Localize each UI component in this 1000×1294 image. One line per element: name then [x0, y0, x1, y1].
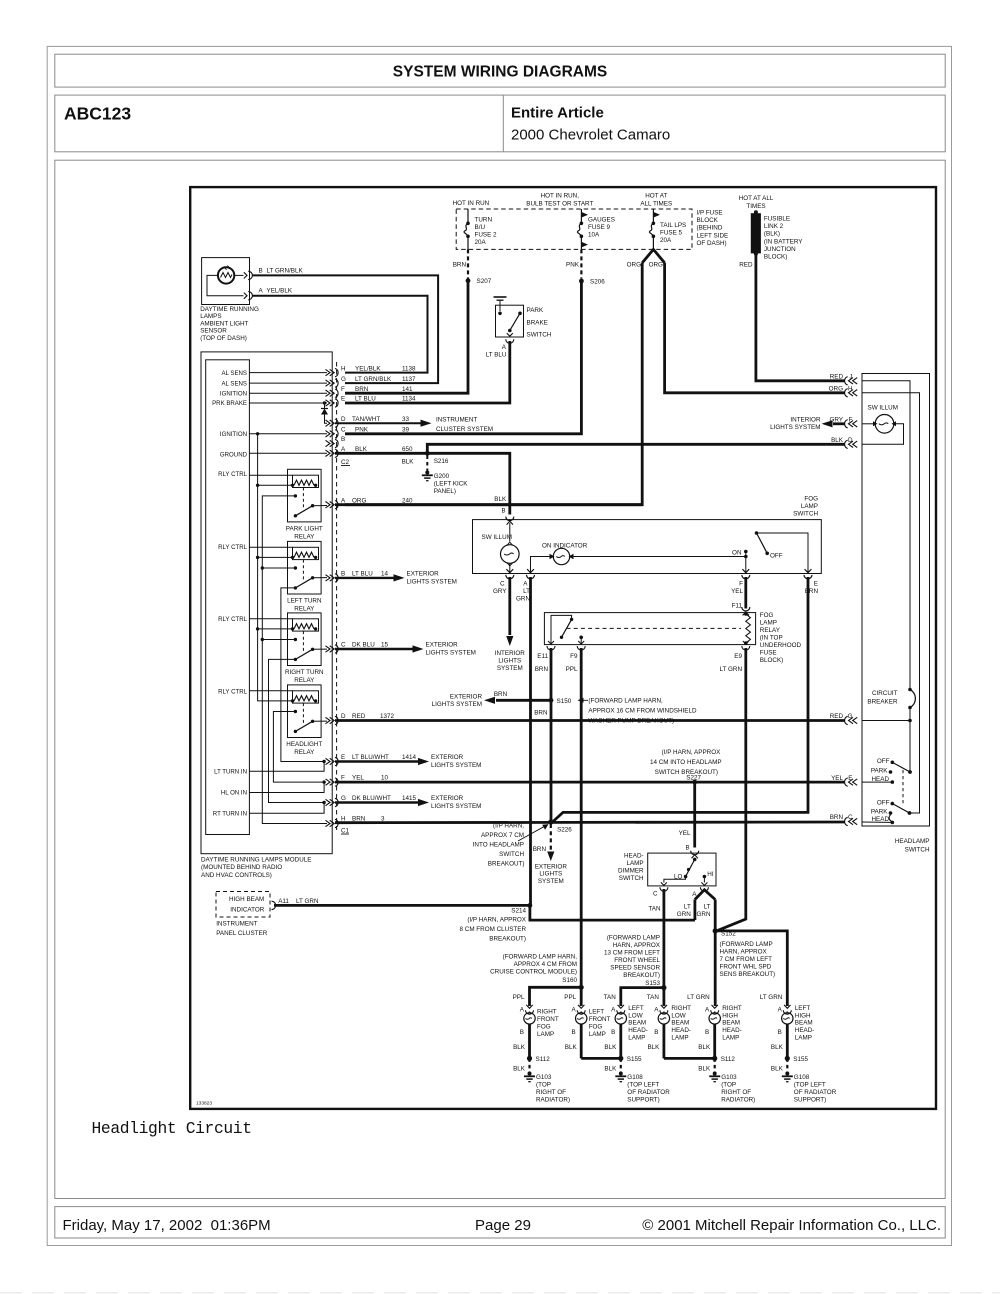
svg-text:S227: S227 [686, 775, 701, 782]
svg-text:(TOP OF DASH): (TOP OF DASH) [200, 335, 247, 342]
wire label F BRN 141 [341, 386, 413, 393]
svg-text:BLK: BLK [494, 496, 507, 503]
splice S155 [785, 1056, 809, 1063]
svg-text:LAMPS: LAMPS [200, 313, 221, 320]
svg-text:HEADLAMP: HEADLAMP [895, 838, 930, 845]
title bar box [55, 54, 945, 87]
svg-text:CRUISE CONTROL MODULE): CRUISE CONTROL MODULE) [490, 969, 577, 976]
svg-text:C2: C2 [341, 459, 350, 466]
headlamp switch mechanical dashed link [902, 770, 904, 804]
svg-text:SWITCH: SWITCH [499, 851, 524, 858]
lamp left high beam headlamp ground wire BLK [771, 1024, 787, 1058]
svg-text:HOT AT: HOT AT [645, 193, 667, 200]
svg-text:S112: S112 [536, 1056, 551, 1063]
wire TAN dimmer C down to S153 [663, 889, 666, 988]
svg-text:SWITCH: SWITCH [793, 511, 818, 518]
svg-text:FOG: FOG [760, 612, 774, 619]
svg-text:APPROX 4 CM FROM: APPROX 4 CM FROM [514, 961, 577, 968]
svg-text:LIGHTS SYSTEM: LIGHTS SYSTEM [407, 578, 457, 585]
label DAYTIME RUNNING LAMPS MODULE (MOUNTED BEHIND RADIO AND HVAC CONTROLS) [201, 857, 311, 879]
dimmer pin C TAN [648, 887, 668, 912]
lamp right front fog [513, 994, 559, 1038]
svg-text:BREAKOUT): BREAKOUT) [488, 861, 525, 868]
svg-text:1137: 1137 [402, 376, 416, 383]
svg-text:YEL: YEL [731, 588, 743, 595]
svg-text:FUSE 9: FUSE 9 [588, 224, 611, 231]
module connector C2 pins [326, 368, 339, 509]
svg-text:HEAD-: HEAD- [624, 853, 644, 860]
wire C DK BLU 15 to exterior lights system [335, 642, 476, 657]
fuse F5 TAIL LPS FUSE 5 20A [649, 209, 686, 249]
svg-text:INTO HEADLAMP: INTO HEADLAMP [473, 842, 524, 849]
svg-text:LINK 2: LINK 2 [764, 223, 784, 230]
svg-text:(TOP: (TOP [721, 1082, 736, 1089]
svg-text:E: E [814, 580, 818, 587]
svg-text:SWITCH: SWITCH [619, 875, 644, 882]
fog lamp relay box [544, 613, 755, 645]
wire BLK right low beam headlamp to S112 [664, 1057, 715, 1060]
lamp left low beam headlamp ground wire BLK [604, 1024, 620, 1058]
wire H BRN 3 to S226 and headlamp switch pin C [335, 815, 845, 822]
svg-text:Page 29: Page 29 [475, 1217, 531, 1234]
svg-text:F: F [849, 417, 853, 424]
svg-text:FRONT WHL SPD: FRONT WHL SPD [720, 964, 772, 971]
svg-text:B: B [520, 1029, 524, 1036]
svg-text:Entire Article: Entire Article [511, 105, 604, 122]
svg-text:BREAKOUT): BREAKOUT) [623, 972, 660, 979]
svg-text:CLUSTER SYSTEM: CLUSTER SYSTEM [436, 426, 493, 433]
label HOT AT ALL TIMES (fusible link) [739, 195, 774, 210]
headlamp switch pin F GRY [829, 417, 857, 429]
svg-text:B: B [259, 267, 263, 274]
wire A ORG 240 from park light relay [335, 497, 642, 504]
fog switch ON contact [732, 550, 748, 574]
svg-text:TIMES: TIMES [746, 203, 765, 210]
svg-text:RELAY: RELAY [294, 749, 315, 756]
svg-text:ON: ON [732, 550, 742, 557]
daytime running lamps ambient light sensor box [202, 258, 250, 305]
svg-text:650: 650 [402, 446, 413, 453]
wire LT GRN fog relay E9 down to S152 [717, 648, 746, 931]
svg-text:LT: LT [704, 904, 711, 911]
svg-text:INTERIOR: INTERIOR [790, 417, 821, 424]
svg-text:LIGHTS SYSTEM: LIGHTS SYSTEM [426, 649, 476, 656]
sensor pin B [244, 267, 304, 279]
svg-text:HOT AT ALL: HOT AT ALL [739, 195, 774, 202]
svg-text:RADIATOR): RADIATOR) [536, 1096, 570, 1103]
svg-text:LOW: LOW [671, 1012, 685, 1019]
fog switch ON INDICATOR bulb [531, 543, 746, 574]
svg-text:GRY: GRY [493, 588, 507, 595]
svg-text:1372: 1372 [380, 713, 395, 720]
headlamp switch internal wire from pin H [862, 393, 920, 813]
splice S216 [402, 451, 449, 466]
svg-text:S155: S155 [627, 1056, 642, 1063]
svg-text:RELAY: RELAY [760, 627, 781, 634]
svg-text:141: 141 [402, 386, 413, 393]
label HEADLAMP DIMMER SWITCH [618, 853, 644, 883]
relay K2 label LEFT TURN RELAY [287, 597, 322, 612]
svg-text:GRN: GRN [697, 911, 711, 918]
headlamp switch pin G junction [862, 719, 912, 723]
svg-text:D: D [848, 437, 853, 444]
header text ABC123 [64, 104, 131, 124]
dimmer LO contact [661, 873, 687, 885]
svg-text:133823: 133823 [196, 1101, 212, 1107]
svg-text:SUPPORT): SUPPORT) [794, 1096, 826, 1103]
wire S216 dashed to ground G200 [426, 456, 428, 471]
relay K4 actuator dashed link [302, 703, 304, 723]
svg-text:E9: E9 [734, 653, 742, 660]
svg-text:RIGHT OF: RIGHT OF [721, 1089, 751, 1096]
wire label C PNK 39 [341, 426, 410, 433]
svg-text:DIMMER: DIMMER [618, 868, 644, 875]
svg-text:PPL: PPL [566, 666, 578, 673]
wire TAN S153 to left low beam headlamp [621, 988, 664, 1006]
svg-text:FUSE: FUSE [760, 650, 777, 657]
lamp right high beam headlamp [687, 994, 742, 1042]
svg-text:10: 10 [381, 775, 389, 782]
fog switch toggle OFF [755, 531, 783, 559]
svg-text:HIGH: HIGH [722, 1012, 738, 1019]
sensor internal wiring to pins [207, 275, 244, 295]
svg-text:UNDERHOOD: UNDERHOOD [760, 642, 802, 649]
label HIGH BEAM INDICATOR [229, 896, 265, 914]
svg-text:LT GRN/BLK: LT GRN/BLK [267, 267, 304, 274]
fog switch illumination pin at top [501, 509, 513, 525]
svg-text:BLK: BLK [604, 1066, 617, 1073]
svg-text:G108: G108 [794, 1074, 810, 1081]
svg-text:LEFT TURN: LEFT TURN [287, 597, 322, 604]
svg-text:LEFT: LEFT [589, 1009, 605, 1016]
svg-text:F9: F9 [570, 653, 578, 660]
svg-text:LIGHTS SYSTEM: LIGHTS SYSTEM [432, 701, 482, 708]
svg-text:(I/P HARN, APPROX: (I/P HARN, APPROX [662, 749, 721, 756]
splice S153 [661, 985, 666, 990]
svg-text:FRONT: FRONT [537, 1016, 559, 1023]
svg-text:(I/P HARN, APPROX: (I/P HARN, APPROX [467, 917, 526, 924]
svg-text:PARK: PARK [871, 809, 888, 816]
svg-text:FOG: FOG [589, 1023, 603, 1030]
svg-text:LAMP: LAMP [722, 1035, 739, 1042]
ground G200 (LEFT KICK PANEL) [422, 471, 469, 496]
wire BRN fog E down and to S226 [553, 577, 809, 822]
wire A BLK 650 to S216 [335, 446, 427, 453]
label HEADLAMP SWITCH [895, 838, 930, 854]
svg-text:G108: G108 [627, 1074, 643, 1081]
wire ORG left branch to module pin A ORG 240 [345, 263, 642, 505]
svg-text:BREAKER: BREAKER [867, 699, 898, 706]
svg-text:DAYTIME RUNNING LAMPS MODULE: DAYTIME RUNNING LAMPS MODULE [201, 857, 311, 864]
wire YEL fog F down to fog relay F11 [732, 577, 746, 610]
svg-text:ABC123: ABC123 [64, 104, 131, 124]
svg-text:B: B [341, 570, 345, 577]
module connector C1 pins [326, 574, 339, 828]
fog switch pin F YEL [731, 569, 750, 595]
svg-text:G103: G103 [721, 1074, 737, 1081]
note I/P harn at S226 with arrow [473, 823, 549, 868]
svg-text:C: C [341, 426, 346, 433]
fuse F9 GAUGES FUSE 9 10A [577, 209, 614, 249]
svg-text:(I/P HARN,: (I/P HARN, [493, 823, 524, 830]
label DAYTIME RUNNING LAMPS AMBIENT LIGHT SENSOR (TOP OF DASH) [200, 306, 259, 342]
svg-text:BEAM: BEAM [671, 1020, 689, 1027]
svg-text:G200: G200 [434, 473, 450, 480]
svg-text:BLK: BLK [771, 1066, 784, 1073]
svg-text:ORG: ORG [649, 262, 663, 269]
svg-text:B: B [501, 509, 505, 515]
label HOT IN RUN (fuse 2) [453, 200, 490, 207]
svg-text:S112: S112 [721, 1056, 736, 1063]
svg-text:RED: RED [830, 713, 844, 720]
svg-text:LT GRN/BLK: LT GRN/BLK [355, 376, 392, 383]
svg-text:(IN BATTERY: (IN BATTERY [764, 238, 803, 245]
svg-text:SWITCH: SWITCH [905, 847, 930, 854]
wire BLK S112 dashed to ground [698, 1058, 714, 1072]
svg-text:OF DASH): OF DASH) [697, 240, 727, 247]
splice S226 [548, 819, 572, 833]
svg-text:BREAKOUT): BREAKOUT) [489, 936, 526, 943]
lamp right low beam headlamp ground wire BLK [647, 1024, 663, 1058]
svg-text:LT GRN: LT GRN [760, 994, 783, 1001]
svg-text:LT GRN: LT GRN [296, 898, 319, 905]
svg-text:YEL/BLK: YEL/BLK [267, 288, 293, 295]
park brake pin A LT BLU [486, 339, 514, 358]
svg-text:LAMP: LAMP [589, 1031, 606, 1038]
splice S207 [466, 278, 492, 285]
wire BRN fog relay E11 to S150 [550, 648, 553, 700]
svg-text:2000 Chevrolet Camaro: 2000 Chevrolet Camaro [511, 127, 670, 144]
svg-text:HEAD-: HEAD- [722, 1027, 742, 1034]
svg-text:S160: S160 [562, 977, 577, 984]
lamp left front fog ground wire BLK [565, 1024, 581, 1058]
svg-text:BLK: BLK [604, 1044, 617, 1051]
svg-text:AND HVAC CONTROLS): AND HVAC CONTROLS) [201, 872, 272, 879]
relay K4 coil [249, 691, 318, 703]
wire YEL/BLK sensor A to module pin H [253, 296, 428, 373]
svg-text:LT BLU: LT BLU [355, 396, 376, 403]
svg-text:© 2001 Mitchell Repair Informa: © 2001 Mitchell Repair Information Co., … [642, 1217, 941, 1234]
svg-text:LIGHTS SYSTEM: LIGHTS SYSTEM [431, 803, 481, 810]
svg-text:BLK: BLK [355, 446, 368, 453]
svg-text:PANEL CLUSTER: PANEL CLUSTER [216, 930, 268, 937]
svg-text:B: B [685, 846, 689, 852]
svg-text:15: 15 [381, 642, 389, 649]
fog relay coil [744, 612, 750, 645]
headlamp switch pin J RED [830, 374, 857, 386]
park brake switch ground [494, 297, 507, 305]
module ignition bus [256, 434, 293, 701]
svg-text:PPL: PPL [513, 994, 525, 1001]
relay K3 label RIGHT TURN RELAY [285, 669, 324, 684]
module wire GROUND to pin A [249, 452, 327, 454]
svg-text:PPL: PPL [564, 994, 576, 1001]
svg-text:EXTERIOR: EXTERIOR [431, 754, 464, 761]
svg-text:7 CM FROM LEFT: 7 CM FROM LEFT [720, 956, 773, 963]
svg-text:RIGHT OF: RIGHT OF [536, 1089, 566, 1096]
svg-text:FUSIBLE: FUSIBLE [764, 216, 790, 223]
svg-text:INDICATOR: INDICATOR [230, 907, 265, 914]
ground G103 [709, 1072, 755, 1104]
svg-text:SYSTEM WIRING DIAGRAMS: SYSTEM WIRING DIAGRAMS [393, 64, 607, 81]
ground G108 [782, 1072, 837, 1104]
svg-text:BLK: BLK [831, 437, 844, 444]
svg-text:HIGH: HIGH [795, 1012, 811, 1019]
svg-text:(TOP: (TOP [536, 1082, 551, 1089]
svg-text:B: B [778, 1029, 782, 1036]
svg-text:1415: 1415 [402, 795, 417, 802]
svg-text:BRN: BRN [494, 691, 508, 698]
svg-text:TURN: TURN [475, 216, 493, 223]
header text 2000 Chevrolet Camaro [511, 127, 670, 144]
headlamp switch pin E YEL [831, 775, 857, 787]
svg-text:13 CM FROM LEFT: 13 CM FROM LEFT [604, 950, 660, 957]
fuse F2 TURN B/U FUSE 2 20A [464, 209, 497, 249]
lamp left low beam headlamp [604, 994, 648, 1042]
relay K1 PARK LIGHT RELAY box [288, 469, 322, 522]
wire ORG right branch to headlamp switch pin H [665, 263, 845, 393]
label FOG LAMP RELAY (IN TOP UNDERHOOD FUSE BLOCK) [760, 612, 802, 664]
svg-text:RLY CTRL: RLY CTRL [218, 689, 248, 696]
svg-text:BLK: BLK [771, 1044, 784, 1051]
svg-text:HEAD-: HEAD- [628, 1027, 648, 1034]
svg-text:BLK: BLK [647, 1044, 660, 1051]
svg-text:1414: 1414 [402, 754, 417, 761]
lamp right low beam headlamp [647, 994, 691, 1042]
wire LT GRN fog A down to S214 [529, 577, 532, 905]
svg-text:B: B [654, 1029, 658, 1036]
wire GRY headlamp switch F to interior lights system [770, 417, 845, 432]
svg-text:(LEFT KICK: (LEFT KICK [434, 481, 469, 488]
fog switch SW ILLUM bulb [482, 523, 520, 574]
svg-text:B/U: B/U [475, 224, 486, 231]
svg-text:FOG: FOG [537, 1023, 551, 1030]
lamp left front fog [564, 994, 610, 1038]
module connector dashed line [336, 362, 338, 830]
relay K3 coil [249, 619, 318, 631]
svg-text:RED: RED [739, 262, 753, 269]
wire E LT BLU/WHT 1414 to exterior lights system [335, 754, 481, 769]
dimmer switch pin B [685, 846, 698, 859]
svg-text:SW ILLUM: SW ILLUM [482, 534, 512, 541]
svg-text:B: B [705, 1029, 709, 1036]
relay K1 coil [249, 475, 318, 487]
svg-text:LAMP: LAMP [795, 1035, 812, 1042]
svg-text:AMBIENT LIGHT: AMBIENT LIGHT [200, 320, 248, 327]
svg-text:LEFT: LEFT [795, 1005, 811, 1012]
svg-text:F: F [739, 580, 743, 587]
header box [55, 95, 945, 152]
svg-text:FUSE 2: FUSE 2 [475, 232, 498, 239]
module internal pin labels [212, 370, 247, 818]
wire GRY fog C to interior lights system [495, 577, 526, 672]
svg-text:LT BLU/WHT: LT BLU/WHT [352, 754, 389, 761]
wire BLK S216 to fog lamp switch illumination [427, 453, 510, 514]
svg-text:RIGHT TURN: RIGHT TURN [285, 669, 324, 676]
svg-text:LAMP: LAMP [801, 503, 818, 510]
svg-text:BRN: BRN [355, 386, 369, 393]
svg-text:ALL TIMES: ALL TIMES [640, 201, 672, 208]
svg-text:C1: C1 [341, 828, 350, 835]
svg-text:PRK BRAKE: PRK BRAKE [212, 400, 247, 407]
svg-text:F: F [341, 775, 345, 782]
wire BRN fuse2 to S207 [453, 249, 468, 278]
wire B LT BLU 14 to exterior lights system [335, 570, 457, 585]
svg-text:BLK: BLK [513, 1044, 526, 1051]
svg-text:OF RADIATOR: OF RADIATOR [794, 1089, 837, 1096]
module riser RIGHT TURN relay arm to pin G [269, 659, 326, 804]
splice S152 [713, 928, 776, 978]
svg-text:OFF: OFF [877, 758, 890, 765]
module wire PRK BRAKE to pin E [249, 401, 327, 404]
svg-text:SWITCH: SWITCH [527, 332, 552, 339]
svg-text:DAYTIME RUNNING: DAYTIME RUNNING [200, 306, 259, 313]
svg-text:(BLK): (BLK) [764, 231, 780, 238]
svg-text:G: G [341, 376, 346, 383]
circuit breaker in headlamp switch [867, 688, 915, 772]
svg-text:S207: S207 [477, 278, 492, 285]
footer page number [475, 1217, 531, 1234]
relay K2 coil [249, 547, 318, 559]
relay K3 actuator dashed link [302, 631, 304, 651]
sensor pin A [244, 288, 293, 300]
relay K4 label HEADLIGHT RELAY [286, 741, 322, 756]
svg-text:PANEL): PANEL) [434, 488, 456, 495]
wire PPL fog relay F9 down to S160 [580, 648, 583, 987]
fog relay actuator dashed link [567, 627, 742, 629]
content box [55, 160, 945, 1198]
svg-text:(FORWARD LAMP: (FORWARD LAMP [720, 941, 773, 948]
fog relay pin E11 [535, 641, 555, 673]
svg-text:SW ILLUM: SW ILLUM [868, 405, 898, 412]
svg-text:(FORWARD LAMP HARN,: (FORWARD LAMP HARN, [503, 954, 578, 961]
svg-text:SUPPORT): SUPPORT) [627, 1096, 659, 1103]
svg-text:RT TURN IN: RT TURN IN [213, 810, 247, 817]
svg-text:ORG: ORG [627, 262, 641, 269]
wire ORG fuse5 split [627, 249, 665, 268]
svg-text:DK BLU: DK BLU [352, 642, 375, 649]
relay K3 RIGHT TURN RELAY box [288, 613, 322, 666]
svg-text:G: G [848, 713, 853, 720]
svg-text:14 CM INTO HEADLAMP: 14 CM INTO HEADLAMP [650, 759, 722, 766]
svg-text:EXTERIOR: EXTERIOR [535, 863, 568, 870]
daytime running lamps module outer box [201, 352, 332, 854]
diagram border [190, 187, 936, 1109]
svg-text:INSTRUMENT: INSTRUMENT [216, 920, 257, 927]
svg-text:RELAY: RELAY [294, 533, 315, 540]
wire TAN S153 down to right low beam headlamp [663, 988, 666, 1006]
label HOT IN RUN BULB TEST OR START (fuse 9) [526, 193, 593, 208]
wire LT GRN indicator to S214 [274, 904, 530, 907]
label pin B [341, 436, 345, 443]
park brake switch box [496, 305, 552, 338]
svg-text:YEL: YEL [831, 775, 843, 782]
fog relay pin F9 [566, 641, 586, 673]
svg-text:RELAY: RELAY [294, 677, 315, 684]
wire BLK S155 dashed to ground [604, 1058, 620, 1072]
svg-text:S155: S155 [793, 1056, 808, 1063]
wire PNK S206 to module pin C [345, 281, 581, 434]
lamp right front fog ground wire BLK [513, 1024, 529, 1058]
wire D RED 1372 to headlamp switch pin G [335, 713, 845, 721]
wire label H YEL/BLK 1138 [341, 365, 416, 372]
svg-text:APPROX 16 CM FROM WINDSHIELD: APPROX 16 CM FROM WINDSHIELD [588, 707, 697, 714]
splice S206 [579, 279, 605, 286]
svg-text:(BEHIND: (BEHIND [697, 225, 723, 232]
splice S112 [527, 1056, 550, 1063]
dimmer pin A LT GRN split [677, 887, 715, 918]
svg-text:BLK: BLK [698, 1044, 711, 1051]
